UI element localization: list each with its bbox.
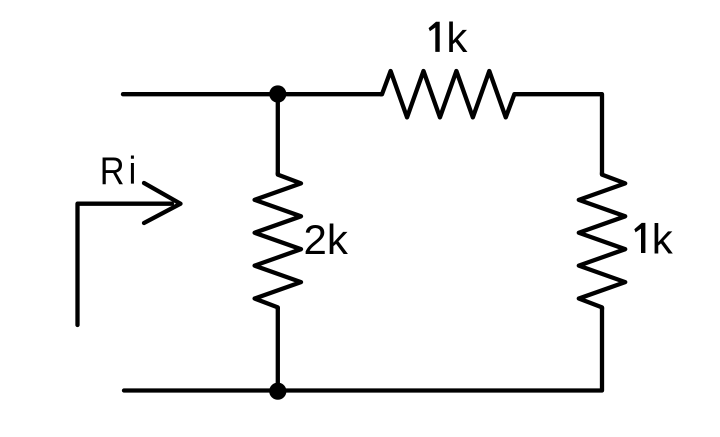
resistor R3 1k (vertical, right) xyxy=(579,173,625,310)
resistor R2 2k (vertical, middle) xyxy=(255,173,301,310)
wire R2 bottom to node B xyxy=(276,307,280,390)
svg-text:Ri: Ri xyxy=(100,149,140,193)
wire R1 to top-right corner down to resistor R3 xyxy=(514,94,602,174)
svg-text:k: k xyxy=(446,14,468,61)
svg-text:2k: 2k xyxy=(304,216,349,263)
arrow Ri shaft xyxy=(78,204,173,325)
bottom wire node B to left output xyxy=(124,388,278,392)
node B junction dot xyxy=(269,383,286,400)
resistor R1 1k (horizontal, top) xyxy=(380,71,516,117)
arrow Ri head xyxy=(144,183,181,223)
svg-text:k: k xyxy=(652,215,674,262)
wire node A down to resistor R2 xyxy=(276,94,280,174)
wire node A to resistor R1 xyxy=(278,92,382,96)
wire top-left input to node A xyxy=(123,92,278,96)
node A junction dot xyxy=(269,85,286,102)
label 1k for R3: digit 1 xyxy=(634,223,645,253)
wire R3 bottom to bottom-right corner to node B xyxy=(278,307,602,390)
label 1k for R1: digit 1 xyxy=(429,22,440,52)
